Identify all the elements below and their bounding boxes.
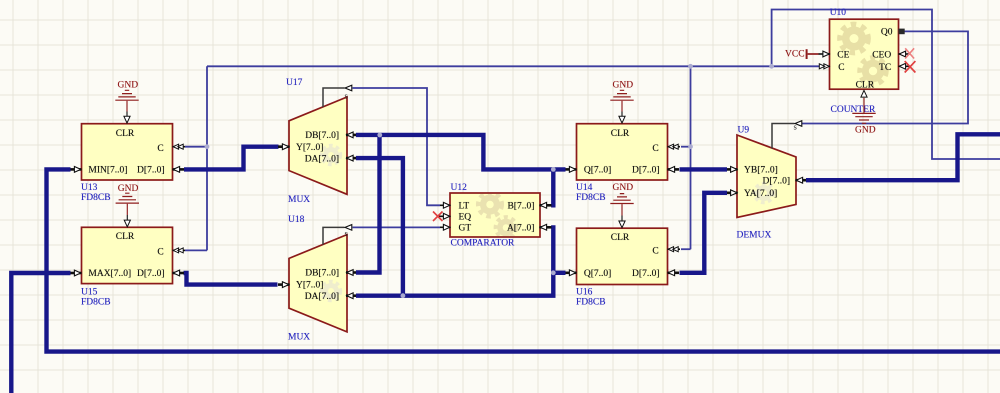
svg-text:U14: U14 [576, 183, 593, 193]
designator U14 [576, 183, 606, 203]
svg-text:s: s [345, 91, 348, 101]
svg-text:C: C [652, 246, 658, 256]
designator U18 [288, 215, 310, 343]
no-connect X on U12.EQ [433, 212, 443, 222]
bus MIN from U13 to bottom rail [47, 169, 1000, 351]
svg-text:YA[7..0]: YA[7..0] [744, 189, 777, 199]
junction on U17.DB bus [377, 133, 382, 138]
svg-text:DEMUX: DEMUX [737, 230, 772, 240]
svg-text:MIN[7..0]: MIN[7..0] [88, 166, 127, 176]
wire U17 select to U12.LT [353, 88, 441, 205]
svg-text:CLR: CLR [611, 129, 630, 139]
svg-text:GND: GND [118, 184, 139, 194]
svg-text:DA[7..0]: DA[7..0] [305, 154, 339, 164]
counter U10 [819, 19, 911, 97]
svg-text:Q0: Q0 [881, 28, 893, 38]
wire CLK horizontal rail [207, 65, 820, 67]
svg-text:CEO: CEO [872, 51, 891, 61]
wire CLK left vertical [206, 66, 208, 250]
svg-text:CLR: CLR [611, 233, 630, 243]
svg-text:CLR: CLR [116, 129, 135, 139]
ground GND above U14 [610, 80, 633, 116]
power VCC [785, 49, 819, 59]
svg-text:GND: GND [613, 183, 634, 193]
wire U16.C stub [681, 248, 691, 250]
wire U14.C stub [681, 146, 691, 148]
svg-text:MAX[7..0]: MAX[7..0] [88, 269, 131, 279]
svg-text:CLR: CLR [856, 80, 875, 90]
wire U18 select to U12.GT [353, 226, 441, 228]
mux U18 [278, 225, 356, 332]
svg-text:U12: U12 [451, 183, 468, 193]
svg-text:D[7..0]: D[7..0] [632, 269, 659, 279]
svg-text:U10: U10 [830, 8, 847, 18]
svg-text:DB[7..0]: DB[7..0] [305, 269, 339, 279]
svg-text:EQ: EQ [459, 213, 472, 223]
svg-text:U15: U15 [81, 288, 98, 298]
svg-text:YB[7..0]: YB[7..0] [744, 166, 778, 176]
ground GND between U13 and U15 [116, 184, 139, 220]
bus U15.D to U18.Y [184, 273, 278, 285]
svg-text:CE: CE [837, 51, 849, 61]
svg-text:MUX: MUX [288, 195, 310, 205]
svg-text:Y[7..0]: Y[7..0] [296, 281, 323, 291]
svg-text:GT: GT [459, 224, 472, 234]
svg-text:U13: U13 [81, 183, 98, 193]
bus U9.D to right edge [806, 134, 1000, 180]
svg-text:C: C [652, 144, 658, 154]
svg-text:DA[7..0]: DA[7..0] [305, 292, 339, 302]
mux U17 [278, 85, 356, 194]
svg-text:TC: TC [879, 63, 891, 73]
svg-text:Y[7..0]: Y[7..0] [296, 143, 323, 153]
svg-text:GND: GND [613, 80, 634, 90]
junction CLK middle drop [688, 64, 693, 69]
no-connect X on U10.CEO [905, 48, 914, 58]
svg-text:C: C [157, 144, 163, 154]
svg-text:D[7..0]: D[7..0] [632, 166, 659, 176]
bus stub U16.Q [553, 271, 565, 275]
demux U9 [727, 121, 806, 218]
svg-text:VCC: VCC [785, 50, 805, 60]
register U14 [566, 116, 681, 180]
junction on U18.DA bus [401, 293, 406, 298]
svg-text:D[7..0]: D[7..0] [763, 176, 790, 186]
junction U16.Q tap [551, 270, 556, 275]
bus U9.YA to U16.D [680, 193, 728, 273]
junction comparator column top [551, 167, 556, 172]
svg-text:C: C [838, 63, 844, 73]
svg-text:C: C [157, 248, 163, 258]
designator U9 [737, 126, 772, 241]
designator U10 [830, 8, 876, 115]
svg-text:Q[7..0]: Q[7..0] [584, 269, 611, 279]
svg-text:FD8CB: FD8CB [576, 193, 606, 203]
junction U14.C on CLK middle vertical [688, 144, 693, 149]
svg-text:s: s [794, 122, 797, 132]
designator U15 [81, 288, 111, 308]
svg-text:CLR: CLR [116, 232, 135, 242]
svg-text:Q[7..0]: Q[7..0] [584, 166, 611, 176]
junction CLK loop tap [769, 64, 774, 69]
svg-text:GND: GND [855, 125, 876, 135]
svg-text:D[7..0]: D[7..0] [137, 166, 164, 176]
svg-text:COMPARATOR: COMPARATOR [451, 239, 516, 249]
bus U14.D to U9.YB [680, 167, 728, 171]
no-connect X on U10.TC [905, 61, 916, 72]
bus MAX from U15 to bottom edge [11, 273, 70, 393]
designator U12 [451, 183, 516, 249]
comparator U12 [439, 193, 552, 237]
svg-text:FD8CB: FD8CB [81, 193, 111, 203]
svg-text:FD8CB: FD8CB [81, 298, 111, 308]
wire U13.C stub [185, 146, 207, 148]
bus U17.DB to U14.Q [356, 135, 566, 170]
designator U16 [576, 288, 606, 308]
designator U13 [81, 183, 111, 203]
ground GND below U10 [852, 98, 875, 136]
svg-text:U16: U16 [576, 288, 593, 298]
svg-text:U9: U9 [738, 126, 750, 136]
svg-text:GND: GND [118, 80, 139, 90]
register U16 [566, 221, 681, 285]
svg-text:DB[7..0]: DB[7..0] [305, 131, 339, 141]
ground GND between U14 and U16 [610, 183, 633, 221]
register U15 [71, 220, 186, 284]
bus U17.DA down to U18.DA rail [356, 158, 403, 296]
svg-text:MUX: MUX [288, 333, 310, 343]
bus U17.DB branch down to U18.DB [356, 135, 380, 273]
wire CLK middle vertical [690, 66, 692, 249]
svg-text:U17: U17 [286, 78, 303, 88]
svg-text:B[7..0]: B[7..0] [507, 202, 534, 212]
junction U13.C on CLK vertical [205, 144, 210, 149]
svg-text:A[7..0]: A[7..0] [507, 224, 534, 234]
svg-text:s: s [345, 228, 348, 238]
svg-text:FD8CB: FD8CB [576, 298, 606, 308]
wire CLK loop to right edge [772, 10, 1000, 160]
svg-text:U18: U18 [288, 215, 305, 225]
svg-text:D[7..0]: D[7..0] [137, 269, 164, 279]
wire U10.Q0 to U9 select [802, 31, 968, 123]
bus U18.DA up to U12.A pin with U16.Q tap [356, 225, 553, 296]
svg-text:LT: LT [459, 202, 470, 212]
bus U12.B pin up to U14.Q rail [551, 169, 555, 207]
bus U13.D to U17.Y [184, 147, 279, 170]
designator U17 [286, 78, 310, 205]
wire U15.C stub [185, 249, 207, 251]
register U13 [71, 116, 186, 180]
ground GND above U13 [115, 80, 138, 116]
